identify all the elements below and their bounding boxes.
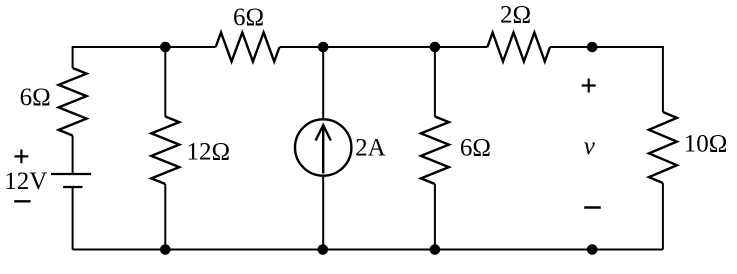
svg-text:2A: 2A — [355, 135, 386, 162]
wire left branch lower — [72, 187, 74, 250]
label 10ohm resistor — [684, 131, 728, 158]
svg-text:10Ω: 10Ω — [684, 131, 728, 158]
node dot top 12ohm branch — [160, 42, 171, 53]
label 6ohm top-left resistor — [233, 4, 264, 31]
svg-text:v: v — [584, 133, 596, 160]
wire 6ohm middle branch lower — [434, 184, 436, 250]
label 12ohm resistor — [187, 139, 231, 166]
wire right branch upper — [662, 46, 664, 112]
node dot top current source branch — [318, 42, 329, 53]
resistor 6ohm left branch — [59, 68, 87, 136]
node dot top v terminal — [587, 42, 598, 53]
label 6ohm left branch resistor — [20, 84, 51, 111]
svg-text:2Ω: 2Ω — [500, 2, 531, 29]
label 2ohm top-right resistor — [500, 2, 531, 29]
wire right branch lower — [662, 183, 664, 250]
wire 12ohm branch lower — [164, 184, 166, 250]
svg-text:6Ω: 6Ω — [233, 4, 264, 31]
label v node voltage — [584, 133, 596, 160]
node dot bottom v terminal — [587, 244, 598, 255]
svg-text:12Ω: 12Ω — [187, 139, 231, 166]
wire top rail left segment — [73, 46, 216, 48]
resistor 2ohm top-right (horizontal) — [487, 33, 550, 62]
node dot bottom 6ohm middle branch — [430, 244, 441, 255]
wire 6ohm middle branch upper — [434, 47, 436, 117]
svg-text:12V: 12V — [4, 168, 47, 195]
current source arrow — [316, 125, 331, 173]
node dot bottom current source branch — [318, 244, 329, 255]
label minus of v — [584, 206, 601, 208]
wire current source branch upper — [322, 47, 324, 119]
label 2A current source — [355, 135, 386, 162]
wire top rail right segment — [550, 46, 663, 48]
wire left branch between resistor and source — [72, 136, 74, 175]
current source I1 2A circle — [295, 119, 351, 175]
label 12V source value — [4, 168, 47, 195]
label minus of 12V source — [14, 200, 30, 202]
wire bottom rail — [73, 249, 663, 251]
label plus of v — [582, 79, 596, 93]
wire current source branch lower — [322, 177, 324, 250]
wire top rail middle segment — [280, 46, 488, 48]
resistor 10ohm right branch — [649, 112, 677, 183]
label 6ohm middle resistor — [460, 135, 491, 162]
node dot top 6ohm middle branch — [430, 42, 441, 53]
wire 12ohm branch upper — [164, 47, 166, 117]
label plus of 12V source — [15, 150, 29, 164]
voltage source V1 12V battery plates — [51, 174, 91, 187]
resistor 12ohm — [151, 117, 179, 185]
resistor 6ohm top-left (horizontal) — [216, 33, 280, 62]
node dot bottom 12ohm branch — [160, 244, 171, 255]
wire left branch upper — [72, 46, 74, 68]
svg-text:6Ω: 6Ω — [460, 135, 491, 162]
resistor 6ohm middle branch — [421, 117, 449, 185]
svg-text:6Ω: 6Ω — [20, 84, 51, 111]
